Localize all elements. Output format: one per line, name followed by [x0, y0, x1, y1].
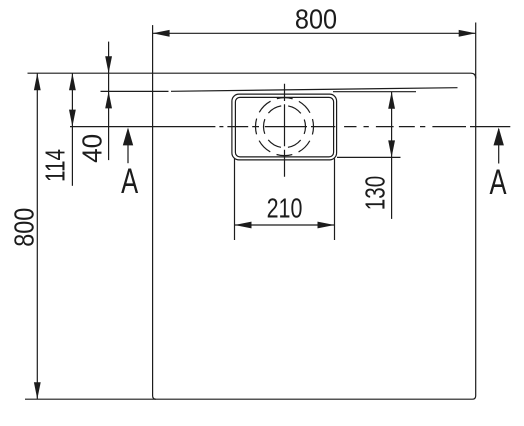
arrowhead 114 top	[69, 73, 76, 90]
extension line 210 right	[334, 159, 336, 241]
arrowhead 130 up	[388, 92, 395, 109]
inner rim edge	[171, 88, 458, 92]
extension line: right edge up	[475, 23, 477, 79]
arrowhead 130 down	[388, 140, 395, 157]
svg-text:40: 40	[77, 134, 108, 163]
horizontal centerline	[70, 126, 510, 128]
svg-text:800: 800	[295, 3, 337, 34]
drain inner rounded rect	[235, 97, 333, 156]
extension line: left edge up	[152, 25, 154, 73]
dimension line 114	[71, 73, 73, 186]
arrowhead 800 top left	[153, 30, 170, 37]
arrowhead 210 left	[235, 222, 252, 229]
arrowhead 800 left top	[34, 73, 41, 90]
dimension line 210	[235, 224, 335, 226]
arrowhead 800 left bottom	[34, 382, 41, 399]
section arrow A left	[123, 128, 133, 146]
section line A left	[127, 129, 129, 163]
dimension line 800 top	[153, 32, 476, 34]
extension line for 40 dim	[101, 90, 169, 92]
tray outline	[153, 73, 476, 399]
dimension line 130	[391, 92, 393, 219]
section arrow A right	[494, 128, 504, 146]
extension line 130 bottom	[337, 156, 401, 158]
svg-text:A: A	[489, 162, 506, 202]
section line A right	[498, 129, 500, 164]
dimension line 800 left	[36, 73, 38, 399]
drain outer dashed circle	[256, 98, 314, 156]
extension line 130 top	[333, 91, 416, 93]
extension line: top edge left	[28, 72, 153, 74]
arrowhead 210 right	[318, 222, 335, 229]
dimension line 40	[108, 42, 110, 161]
extension line: bottom edge left	[25, 398, 156, 400]
extension line 210 left	[234, 159, 236, 241]
arrowhead 40 up at rim line	[105, 91, 112, 108]
drain inner dashed circle	[264, 106, 306, 148]
svg-text:114: 114	[41, 149, 72, 182]
arrowhead 114 bottom	[69, 110, 76, 127]
arrowhead 40 down at top edge	[105, 56, 112, 73]
svg-text:210: 210	[267, 194, 303, 224]
svg-text:130: 130	[361, 176, 392, 210]
vertical centerline of drain	[284, 84, 286, 177]
svg-text:800: 800	[10, 208, 40, 247]
drain outer rounded rect	[232, 94, 337, 160]
svg-text:A: A	[121, 161, 138, 201]
arrowhead 800 top right	[459, 30, 476, 37]
